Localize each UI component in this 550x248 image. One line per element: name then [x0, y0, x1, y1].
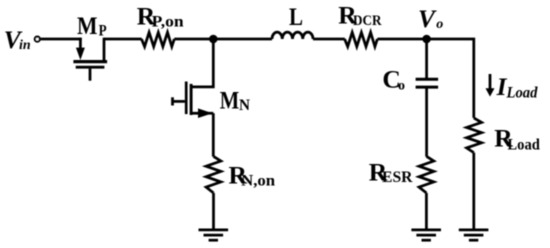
svg-text:N,on: N,on — [241, 172, 275, 189]
svg-text:Load: Load — [506, 84, 539, 101]
svg-text:o: o — [398, 79, 405, 94]
label RDCR — [338, 1, 381, 30]
resistor RESR — [419, 156, 434, 193]
label L — [289, 2, 303, 31]
wire RESR to ground — [425, 193, 428, 230]
label RN,on — [229, 160, 276, 189]
wire RDCR to Vo node and on to RLoad branch corner — [377, 39, 473, 118]
wire RLoad to ground — [472, 153, 475, 230]
svg-text:in: in — [19, 38, 31, 53]
svg-text:DCR: DCR — [353, 13, 382, 29]
inductor L — [272, 32, 313, 39]
wire RP,on to inductor L (switching node segment) — [174, 38, 272, 41]
transistor MP (PMOS power switch) — [73, 38, 107, 81]
svg-text:P,on: P,on — [152, 14, 184, 31]
label RP,on — [137, 2, 184, 31]
svg-text:V: V — [418, 4, 437, 33]
label MP — [77, 11, 107, 40]
wire MP drain to RP,on — [104, 38, 142, 41]
input terminal Vin — [35, 37, 40, 42]
label RESR — [369, 158, 413, 187]
svg-text:P: P — [99, 23, 107, 40]
transistor MN (NMOS synchronous switch) — [173, 82, 214, 119]
ground (MN branch) — [199, 230, 229, 240]
ground (output capacitor branch) — [411, 230, 441, 240]
wire Co to RESR — [425, 87, 428, 156]
ground (RLoad branch) — [459, 230, 489, 240]
svg-text:N: N — [239, 97, 250, 114]
label Vo — [418, 4, 443, 33]
wire MN source down to RN,on — [212, 113, 215, 156]
wire RN,on to ground — [212, 193, 215, 230]
wire Vin terminal to MP source — [41, 38, 82, 41]
node Vo — [422, 35, 431, 44]
svg-text:Load: Load — [507, 137, 540, 154]
current arrow ILoad — [486, 74, 495, 97]
resistor RN,on — [206, 156, 221, 193]
svg-text:o: o — [436, 17, 443, 32]
label Co — [382, 65, 405, 94]
node SW junction — [209, 35, 218, 44]
svg-text:M: M — [220, 85, 240, 114]
svg-text:L: L — [289, 2, 303, 31]
resistor RP,on — [142, 32, 175, 46]
svg-text:M: M — [77, 11, 98, 40]
wire SW node down to MN drain — [192, 39, 214, 87]
label Vin — [4, 25, 31, 54]
label RLoad — [494, 123, 540, 153]
resistor RDCR — [345, 32, 378, 46]
capacitor Co — [416, 79, 439, 87]
label MN — [220, 85, 251, 114]
label ILoad — [496, 72, 539, 102]
wire L to RDCR — [313, 38, 345, 41]
svg-text:ESR: ESR — [382, 169, 413, 186]
resistor RLoad — [467, 118, 482, 153]
wire Vo down to Co — [425, 39, 428, 78]
